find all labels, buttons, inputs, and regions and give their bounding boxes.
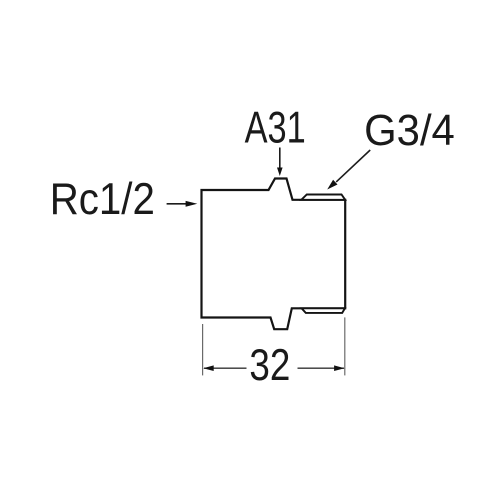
right extension line bbox=[344, 317, 346, 375]
thread crest chamfer top (G3/4 thread) bbox=[301, 195, 345, 200]
left extension line bbox=[202, 324, 204, 375]
leader arrow from G3/4 to thread bbox=[327, 150, 370, 190]
dimension line right segment with arrowhead bbox=[298, 365, 345, 371]
dimension line left segment with arrowhead bbox=[203, 365, 246, 371]
fitting body outline bbox=[202, 179, 346, 330]
leader arrow from Rc1/2 to left face bbox=[167, 201, 198, 207]
leader arrow from A31 to top bump bbox=[277, 148, 283, 177]
svg-text:Rc1/2: Rc1/2 bbox=[50, 175, 155, 224]
svg-text:32: 32 bbox=[249, 339, 290, 389]
svg-text:G3/4: G3/4 bbox=[364, 106, 455, 155]
svg-text:A31: A31 bbox=[245, 104, 306, 153]
thread crest chamfer bottom bbox=[302, 308, 345, 313]
